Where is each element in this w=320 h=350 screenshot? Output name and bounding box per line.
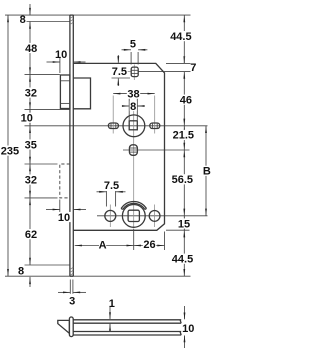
svg-text:10: 10	[55, 49, 67, 61]
dim 7.5 bottom	[105, 191, 107, 207]
dim 3 faceplate thickness	[69, 280, 71, 294]
edge view faceplate	[69, 317, 73, 337]
dim 1 edge view	[109, 307, 111, 320]
svg-text:10: 10	[21, 113, 33, 125]
latch bolt tail inside case	[74, 78, 91, 109]
faceplate hatching bottom	[70, 267, 73, 269]
latch bolt dashed extended position	[60, 164, 70, 198]
rectangular slot below follower	[129, 145, 137, 156]
centerline rect-slot horizontal	[123, 149, 190, 151]
extension line dashed latch top	[25, 163, 58, 165]
faceplate front view	[69, 15, 71, 276]
dim A and 26	[133, 229, 135, 250]
svg-text:7: 7	[190, 62, 196, 74]
follower circle	[123, 115, 145, 137]
svg-text:38: 38	[127, 89, 139, 101]
svg-text:46: 46	[180, 95, 192, 107]
svg-text:48: 48	[25, 43, 37, 55]
svg-text:15: 15	[178, 218, 190, 230]
latch bolt head	[60, 75, 70, 109]
follower square spindle hole	[129, 121, 137, 130]
centerline hub horizontal	[97, 215, 208, 217]
dim 10 bottom left dashed latch	[59, 200, 61, 213]
centerline right slot vertical	[154, 96, 156, 134]
WC hub square	[128, 210, 139, 221]
extension line faceplate bottom	[5, 275, 191, 277]
dim 38	[113, 93, 155, 95]
WC hub outer circle	[122, 205, 145, 228]
svg-text:44.5: 44.5	[172, 254, 193, 266]
top slot hole	[131, 67, 138, 77]
svg-text:B: B	[203, 166, 211, 178]
dim line 235 overall	[7, 15, 9, 276]
svg-text:32: 32	[25, 174, 37, 186]
extension line slot bottom left	[112, 77, 131, 79]
svg-text:21.5: 21.5	[173, 130, 194, 142]
svg-text:3: 3	[69, 296, 75, 308]
centerline left slot vertical	[112, 96, 114, 134]
dim 5 top slot	[122, 49, 132, 51]
WC hub crescent arcs	[121, 201, 146, 208]
right chain dim line	[183, 15, 185, 63]
svg-text:1: 1	[109, 298, 115, 310]
lock case outline	[74, 63, 165, 230]
extension line faceplate top	[5, 14, 191, 16]
extension line dashed latch bottom	[25, 197, 58, 199]
centerline bottom-left circle vertical	[109, 205, 111, 228]
svg-text:8: 8	[18, 266, 24, 278]
edge view case bottom rail	[73, 331, 181, 333]
centerline top slot vertical	[133, 65, 135, 81]
faceplate hatching top	[70, 16, 73, 18]
left chain dim line	[29, 22, 31, 266]
bottom left circle	[105, 210, 116, 221]
svg-text:8: 8	[130, 101, 136, 113]
extension line case top right	[166, 62, 191, 64]
svg-text:A: A	[99, 240, 107, 252]
svg-text:5: 5	[130, 38, 136, 50]
dim line B outer right	[205, 126, 207, 216]
svg-text:56.5: 56.5	[172, 174, 193, 186]
dim 10 top left	[59, 58, 61, 74]
dim 10 edge view	[184, 306, 186, 319]
edge view case top rail	[73, 319, 181, 321]
svg-text:10: 10	[182, 323, 194, 335]
svg-text:44.5: 44.5	[170, 31, 191, 43]
svg-text:35: 35	[25, 139, 37, 151]
extension line y=21.5	[27, 21, 70, 23]
dim 8 follower square	[122, 105, 129, 107]
extension line y=265	[25, 264, 70, 266]
svg-text:26: 26	[143, 239, 155, 251]
extension line case bottom right	[166, 229, 190, 231]
edge view latch bolt wedge	[58, 320, 70, 333]
dim 7.5 top	[117, 55, 119, 63]
extension line slot centre right	[138, 71, 191, 73]
left side slot	[108, 123, 118, 129]
svg-text:8: 8	[20, 14, 26, 26]
svg-text:62: 62	[25, 229, 37, 241]
svg-text:7.5: 7.5	[112, 66, 127, 78]
svg-text:7.5: 7.5	[104, 180, 119, 192]
extension line latch bottom	[25, 109, 71, 111]
dim 7 outside arrow stubs	[183, 56, 185, 63]
centerline follower horizontal	[25, 125, 208, 127]
bottom right circle	[149, 211, 160, 222]
svg-text:235: 235	[1, 145, 19, 157]
centerline vertical axis	[133, 103, 135, 229]
svg-text:10: 10	[58, 212, 70, 224]
centerline bottom-right circle vertical	[154, 205, 156, 228]
right side slot	[150, 123, 160, 129]
extension line latch top	[25, 74, 60, 76]
svg-text:32: 32	[25, 87, 37, 99]
